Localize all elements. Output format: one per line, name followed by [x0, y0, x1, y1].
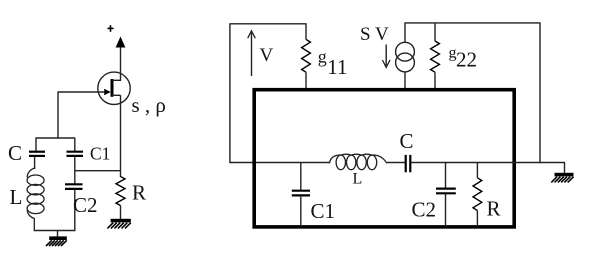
svg-text:C: C — [8, 141, 22, 165]
svg-text:V: V — [260, 45, 274, 66]
svg-text:C1: C1 — [311, 199, 336, 223]
resistor R — [116, 177, 125, 220]
capacitor C2 box — [436, 163, 456, 227]
svg-text:R: R — [132, 181, 146, 205]
gate wire — [58, 91, 105, 93]
capacitor C — [29, 138, 45, 169]
supply arrow — [116, 37, 126, 82]
svg-text:C: C — [400, 129, 414, 153]
inductor L — [27, 168, 44, 231]
wire resonator left segment — [256, 162, 330, 164]
ground right — [551, 163, 573, 183]
svg-text:22: 22 — [456, 47, 477, 71]
wire top rail right — [404, 22, 540, 24]
svg-text:R: R — [487, 196, 501, 220]
svg-text:L: L — [10, 185, 23, 209]
two-port network box — [254, 90, 514, 227]
wire C to right edge — [411, 162, 516, 164]
svg-text:11: 11 — [327, 55, 347, 79]
transistor Q1 (JFET) — [98, 72, 130, 104]
supply terminal + label — [108, 25, 114, 32]
wire top rail left — [229, 23, 306, 25]
resistor g22 — [431, 23, 440, 89]
wire left into box — [230, 162, 256, 164]
resistor R box — [473, 163, 482, 227]
capacitor C1 box — [292, 163, 310, 227]
wire box to ground — [516, 162, 565, 164]
svg-text:s , ρ: s , ρ — [132, 93, 166, 117]
voltage arrow V — [248, 31, 256, 76]
current source SV — [396, 23, 415, 89]
svg-text:C2: C2 — [412, 197, 437, 221]
capacitor C2 — [65, 171, 83, 231]
ground R — [107, 219, 130, 229]
wire tap C1-C2 to source — [75, 170, 121, 172]
wire source to R — [120, 95, 122, 177]
wire gate stub down — [57, 91, 59, 138]
resistor g11 — [302, 24, 311, 89]
svg-text:S V: S V — [360, 24, 389, 45]
capacitor C box (series) — [406, 155, 411, 172]
inductor L box — [330, 154, 387, 169]
svg-text:C2: C2 — [73, 193, 98, 217]
svg-text:g: g — [318, 47, 327, 67]
capacitor C1 — [67, 138, 84, 171]
wire left outer — [229, 24, 231, 163]
current arrow SV — [382, 45, 390, 68]
wire tank bottom — [34, 230, 76, 232]
wire tank top — [35, 137, 75, 139]
ground tank — [46, 231, 67, 247]
svg-text:C1: C1 — [90, 144, 110, 164]
svg-text:L: L — [353, 170, 363, 187]
wire right outer — [539, 23, 541, 163]
wire L to C — [387, 162, 405, 164]
